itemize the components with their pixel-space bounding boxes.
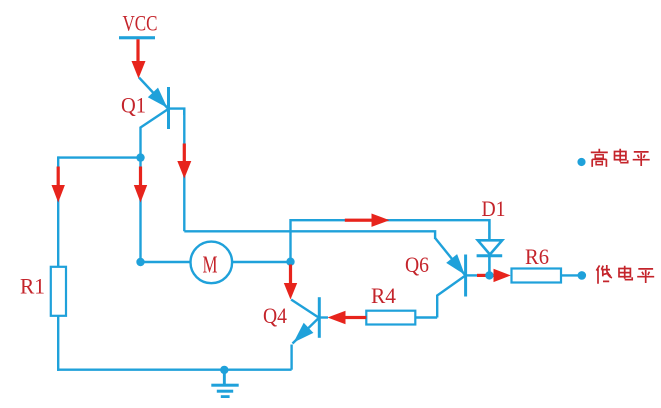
current arrow A3: down left leg bbox=[52, 167, 65, 203]
svg-text:Q1: Q1 bbox=[121, 93, 146, 118]
transistor Q1 (PNP) bbox=[139, 78, 184, 158]
svg-text:R6: R6 bbox=[525, 244, 549, 269]
wire: node B to motor bbox=[141, 261, 191, 263]
junction node B bbox=[136, 258, 144, 266]
Q4 base stub bbox=[319, 316, 328, 318]
junction node C bbox=[286, 258, 294, 266]
Q4 emitter arrowhead bbox=[294, 323, 314, 343]
wire: node A horizontal to left leg bbox=[58, 156, 140, 158]
Q1 base bar bbox=[167, 87, 170, 129]
svg-text:D1: D1 bbox=[482, 196, 506, 221]
Q4 collector lead bbox=[291, 300, 318, 318]
D1 cathode bar bbox=[477, 254, 503, 257]
Q1 base lead bbox=[141, 110, 168, 158]
Q6 base stub bbox=[466, 274, 480, 276]
Q6 base bar bbox=[464, 255, 467, 297]
Q4 emitter wire to ground rail bbox=[290, 345, 292, 370]
motor M bbox=[191, 242, 233, 284]
Q1 emitter arrowhead bbox=[148, 88, 168, 108]
D1 cathode stem bbox=[488, 256, 491, 276]
wire: node C up to top rail bbox=[291, 220, 490, 262]
低 bbox=[596, 265, 612, 284]
current arrow A8: right into R6 bbox=[477, 269, 511, 282]
svg-text:M: M bbox=[203, 253, 218, 279]
电 bbox=[619, 266, 632, 280]
ground symbol bbox=[211, 370, 238, 398]
svg-text:Q6: Q6 bbox=[405, 252, 429, 277]
wire: R6 to output terminal bbox=[561, 274, 582, 276]
power terminal VCC bar bbox=[119, 36, 155, 39]
junction node A bbox=[136, 153, 144, 161]
svg-text:Q4: Q4 bbox=[263, 303, 287, 328]
Q4 base bar bbox=[318, 297, 321, 338]
平 bbox=[637, 269, 654, 283]
svg-text:VCC: VCC bbox=[123, 10, 158, 35]
current arrow A4: down into motor branch bbox=[134, 167, 147, 203]
label M bbox=[203, 253, 218, 279]
D1 anode stem bbox=[488, 219, 491, 241]
Q6 emitter lead bbox=[435, 238, 465, 275]
wire: bottom ground rail bbox=[57, 369, 292, 371]
resistor R1 bbox=[51, 267, 66, 316]
电 bbox=[615, 149, 628, 163]
label D1 bbox=[482, 196, 506, 221]
wire: left leg down to R1 bbox=[57, 156, 59, 266]
current arrow A1: VCC down into Q1 emitter bbox=[132, 39, 146, 78]
resistor R4 bbox=[366, 311, 415, 325]
current arrow A5: right along top rail bbox=[345, 214, 390, 227]
current arrow A7: node C down into Q4 collector bbox=[284, 265, 297, 300]
wire: node A down to node B bbox=[139, 158, 141, 262]
wire: R1 bottom to ground rail bbox=[57, 316, 59, 371]
output terminal dot (low level) bbox=[578, 271, 587, 280]
wire: Q6 collector to R4 bbox=[415, 316, 437, 318]
wire: motor to node C bbox=[232, 261, 290, 263]
transistor Q6 (PNP) bbox=[435, 238, 480, 318]
svg-text:R1: R1 bbox=[20, 273, 45, 298]
label Q1 bbox=[121, 93, 146, 118]
label R6 bbox=[525, 244, 549, 269]
Q1 collector stub bbox=[169, 109, 185, 115]
junction node D (D1 cathode / Q6 base) bbox=[485, 271, 493, 279]
Q4 emitter lead bbox=[293, 319, 319, 344]
高 bbox=[591, 149, 608, 167]
Q6 collector lead bbox=[437, 275, 465, 317]
label 高电平 (high level) bbox=[591, 149, 650, 167]
legend dot (high level) bbox=[577, 158, 585, 166]
svg-text:R4: R4 bbox=[371, 283, 396, 308]
current arrow A2: down Q1 collector bbox=[177, 144, 191, 179]
net label VCC bbox=[123, 10, 158, 35]
Q1 emitter lead bbox=[139, 78, 168, 109]
平 bbox=[633, 152, 650, 166]
Q6 emitter arrowhead bbox=[446, 254, 465, 275]
resistor R6 bbox=[512, 269, 562, 283]
label R1 bbox=[20, 273, 45, 298]
label R4 bbox=[371, 283, 396, 308]
label 低电平 (low level) bbox=[596, 265, 654, 284]
label Q4 bbox=[263, 303, 287, 328]
current arrow A6: left from R4 into Q4 base bbox=[328, 311, 367, 324]
diode D1 bbox=[477, 219, 503, 275]
wire: mid rail y=231 from Q1 collector to Q6 emitter corner bbox=[184, 231, 435, 239]
D1 triangle bbox=[478, 240, 502, 254]
transistor Q4 (NPN) bbox=[291, 297, 328, 370]
wire: Q1 collector down to y=231 rail bbox=[183, 109, 185, 232]
label Q6 bbox=[405, 252, 429, 277]
ground junction dot bbox=[220, 366, 228, 374]
